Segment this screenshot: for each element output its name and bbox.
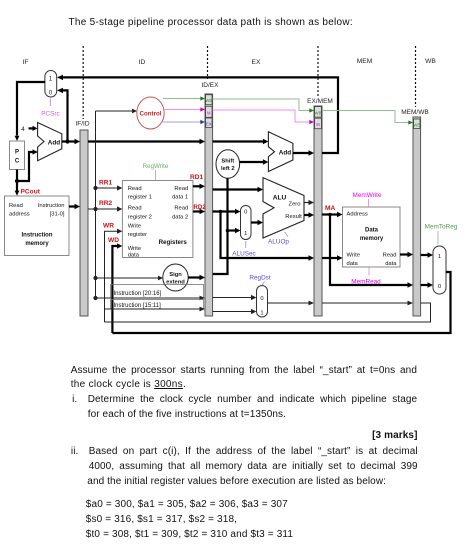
wire write data EX/MEM to data memory <box>322 255 343 260</box>
stage separator dashed line EX/MEM <box>317 46 319 96</box>
wire into Control <box>96 109 138 114</box>
control unit ellipse <box>137 97 164 129</box>
svg-text:RegWrite: RegWrite <box>143 163 169 170</box>
wire branch Add output to EX/MEM <box>293 150 314 155</box>
wire RD2 read data 2 to ID/EX <box>193 209 205 214</box>
wire ALU Result to EX/MEM <box>304 212 314 217</box>
svg-text:IF/ID: IF/ID <box>75 121 89 128</box>
wire ALU result EX/MEM to data memory address <box>322 212 343 217</box>
label MemToReg <box>425 224 458 245</box>
wire write register number writeback loop <box>105 303 431 322</box>
svg-text:data: data <box>128 253 140 259</box>
question text block <box>71 365 417 376</box>
pipeline register IF/ID <box>75 121 89 317</box>
svg-text:memory: memory <box>360 236 384 242</box>
svg-text:ID/EX: ID/EX <box>202 82 220 89</box>
label box Instruction 20:16 <box>111 285 204 299</box>
data memory <box>343 207 401 267</box>
svg-text:Instruction: Instruction <box>38 203 65 209</box>
wire write register number EX/MEM to MEM/WB <box>322 301 413 306</box>
svg-text:Read: Read <box>383 253 397 259</box>
wire PC value to Add <box>17 152 37 181</box>
pipeline register MEM/WB <box>401 109 428 316</box>
svg-text:RR1: RR1 <box>99 180 113 187</box>
svg-text:0: 0 <box>260 296 263 302</box>
svg-text:IF: IF <box>23 59 29 66</box>
svg-text:address: address <box>9 212 30 218</box>
svg-text:Shift: Shift <box>221 159 234 165</box>
svg-text:MEM: MEM <box>357 58 373 65</box>
wire write data writeback loop <box>112 272 450 333</box>
wire Add output to IF/ID <box>62 139 80 144</box>
svg-text:Write: Write <box>128 246 141 252</box>
svg-text:0: 0 <box>244 210 247 216</box>
svg-text:M: M <box>207 111 211 116</box>
svg-text:C: C <box>15 159 20 165</box>
svg-text:EX: EX <box>206 121 212 126</box>
wire WB control ID/EX to EX/MEM <box>213 99 314 113</box>
register file Registers <box>122 181 192 259</box>
svg-text:Read: Read <box>174 186 188 192</box>
svg-text:memory: memory <box>25 241 49 247</box>
svg-text:MemToReg: MemToReg <box>425 224 458 231</box>
svg-text:1: 1 <box>438 254 441 260</box>
svg-text:register 2: register 2 <box>128 214 152 220</box>
svg-text:Zero: Zero <box>289 202 301 208</box>
wire instruction from IF/ID and RR2 read register 2 <box>88 206 122 211</box>
svg-text:4: 4 <box>21 126 25 133</box>
pipeline register ID/EX <box>202 82 220 316</box>
svg-text:M: M <box>316 122 320 127</box>
instruction memory <box>5 196 70 256</box>
label RegWrite <box>143 163 169 180</box>
svg-text:Add: Add <box>48 139 61 146</box>
svg-text:WB: WB <box>205 98 212 103</box>
stage separator dashed line ID/EX <box>207 46 209 79</box>
svg-text:Result: Result <box>285 214 302 220</box>
wire read data 1 ID/EX to ALU <box>213 187 263 192</box>
wire read data MEM/WB to MemToReg mux 1 <box>421 252 433 257</box>
stage separator dashed line IF/ID <box>82 46 84 119</box>
wire sign extend value ID/EX to shift and ALUSrc mux 1 <box>213 178 241 274</box>
mux MemToReg <box>433 246 446 294</box>
svg-text:Instruction: Instruction <box>22 233 53 239</box>
label ALUOp <box>268 232 289 246</box>
wire instruction 15:11 to ID/EX <box>105 307 206 312</box>
svg-text:Write: Write <box>128 224 141 230</box>
wire PC+4 from IF/ID to ID/EX <box>88 139 205 144</box>
svg-text:Read: Read <box>174 206 188 212</box>
svg-text:RD1: RD1 <box>190 174 204 181</box>
svg-text:0: 0 <box>438 284 441 290</box>
wire ALUSrc mux output to ALU <box>251 220 263 225</box>
stage separator dashed line MEM/WB <box>415 46 417 107</box>
svg-text:register: register <box>128 232 147 238</box>
adder Add (branch target) <box>268 132 293 172</box>
svg-text:Address: Address <box>347 212 368 218</box>
wire arrow into Add lower input <box>33 149 38 154</box>
svg-text:MemWrite: MemWrite <box>353 192 382 199</box>
constant 4 input <box>21 126 37 133</box>
svg-text:Control: Control <box>140 111 162 118</box>
wire instruction 15:11 ID/EX to RegDst mux 1 <box>213 309 257 314</box>
ALU <box>263 178 304 238</box>
svg-text:Data: Data <box>365 228 379 234</box>
svg-text:1: 1 <box>260 311 263 317</box>
wire ALU result bypass to MEM/WB <box>330 215 413 288</box>
label box Instruction 15:11 <box>111 300 204 310</box>
wire WB control EX/MEM to MEM/WB <box>322 111 413 125</box>
svg-text:Instruction [20:16]: Instruction [20:16] <box>114 291 162 297</box>
title text <box>69 17 357 28</box>
svg-text:RR2: RR2 <box>99 200 113 207</box>
wire mux output to PC <box>15 82 45 141</box>
svg-text:ALUOp: ALUOp <box>268 239 289 246</box>
svg-text:Read: Read <box>128 206 142 212</box>
svg-text:PCout: PCout <box>21 189 41 196</box>
svg-text:MEM/WB: MEM/WB <box>401 109 428 116</box>
svg-text:Instruction [15:11]: Instruction [15:11] <box>114 303 162 309</box>
svg-text:WB: WB <box>425 58 436 65</box>
wire PC+4 ID/EX to branch Add <box>213 139 269 144</box>
label ALUSec <box>232 241 256 258</box>
wire PC output down to instruction memory <box>15 170 20 196</box>
mux PCSrc <box>45 71 57 98</box>
svg-text:register 1: register 1 <box>128 195 152 201</box>
wire instruction bus vertical tap <box>95 111 97 298</box>
wire PC+4 to mux input 0 <box>57 88 70 144</box>
label MemWrite <box>353 192 382 207</box>
wire instruction 20:16 ID/EX to RegDst mux 0 <box>213 295 257 300</box>
svg-text:Sign: Sign <box>169 272 182 278</box>
wire shift left 2 output to branch Add <box>240 159 269 164</box>
svg-text:Registers: Registers <box>159 239 188 246</box>
wire to sign extend <box>93 276 163 281</box>
svg-text:Write: Write <box>347 253 360 259</box>
svg-text:PCSrc: PCSrc <box>41 111 60 118</box>
mux ALUSrc <box>241 206 252 240</box>
svg-text:[31-0]: [31-0] <box>50 212 65 218</box>
svg-text:Read: Read <box>128 186 142 192</box>
svg-text:Add: Add <box>279 150 292 157</box>
wire RegDst mux output to EX/MEM <box>268 301 315 306</box>
svg-text:P: P <box>15 150 19 156</box>
wire ALU Zero to EX/MEM <box>304 200 314 205</box>
wire WR write register from writeback <box>105 229 123 322</box>
svg-text:data: data <box>385 261 397 267</box>
svg-text:MA: MA <box>325 205 335 212</box>
svg-text:1: 1 <box>244 231 247 237</box>
svg-text:WB: WB <box>315 110 322 115</box>
svg-text:ALU: ALU <box>273 195 287 202</box>
svg-text:EX: EX <box>252 59 261 66</box>
wire read data to MEM/WB <box>400 252 413 257</box>
label MemRead <box>351 268 381 286</box>
wire M control ID/EX to EX/MEM <box>213 110 314 124</box>
svg-text:data 1: data 1 <box>172 195 188 201</box>
wire RR1 read register 1 <box>93 185 122 190</box>
label PCSrc <box>41 99 60 118</box>
wire instruction 20:16 to ID/EX <box>93 296 205 301</box>
wire RD1 read data 1 to ID/EX <box>193 184 205 189</box>
mux RegDst <box>257 286 268 318</box>
svg-text:ALUSec: ALUSec <box>232 251 256 258</box>
svg-text:left 2: left 2 <box>221 166 235 172</box>
svg-text:EX/MEM: EX/MEM <box>307 98 333 105</box>
svg-text:WD: WD <box>108 237 119 244</box>
wire sign extend output to ID/EX <box>188 275 205 280</box>
svg-text:ID: ID <box>139 59 146 66</box>
svg-text:data 2: data 2 <box>172 214 188 220</box>
wire Control M signal to ID/EX <box>164 107 205 111</box>
svg-text:RegDst: RegDst <box>249 275 271 282</box>
wire instruction memory output to IF/ID <box>69 204 80 209</box>
pipeline register EX/MEM <box>307 98 333 316</box>
wire Control EX signal to ID/EX <box>161 120 205 124</box>
wire WD write data from writeback <box>112 243 122 333</box>
svg-text:WB: WB <box>413 122 420 127</box>
wire Control WB signal to ID/EX <box>163 96 205 100</box>
adder Add (PC+4) <box>38 123 62 161</box>
svg-text:data: data <box>347 261 359 267</box>
shift left 2 unit <box>216 150 240 179</box>
wire branch target from EX/MEM to mux input 1 <box>57 75 338 153</box>
label RegDst <box>249 275 271 287</box>
svg-text:WR: WR <box>103 223 114 230</box>
wire read data 2 bypass to EX/MEM write data <box>221 212 315 261</box>
wire ALU result MEM/WB to MemToReg mux 0 <box>421 282 433 287</box>
svg-text:MemRead: MemRead <box>351 279 381 286</box>
sign extend unit <box>163 264 188 291</box>
svg-text:Read: Read <box>9 203 23 209</box>
register PC <box>10 141 25 170</box>
wire read data 2 ID/EX to ALUSrc mux 0 <box>213 209 241 214</box>
